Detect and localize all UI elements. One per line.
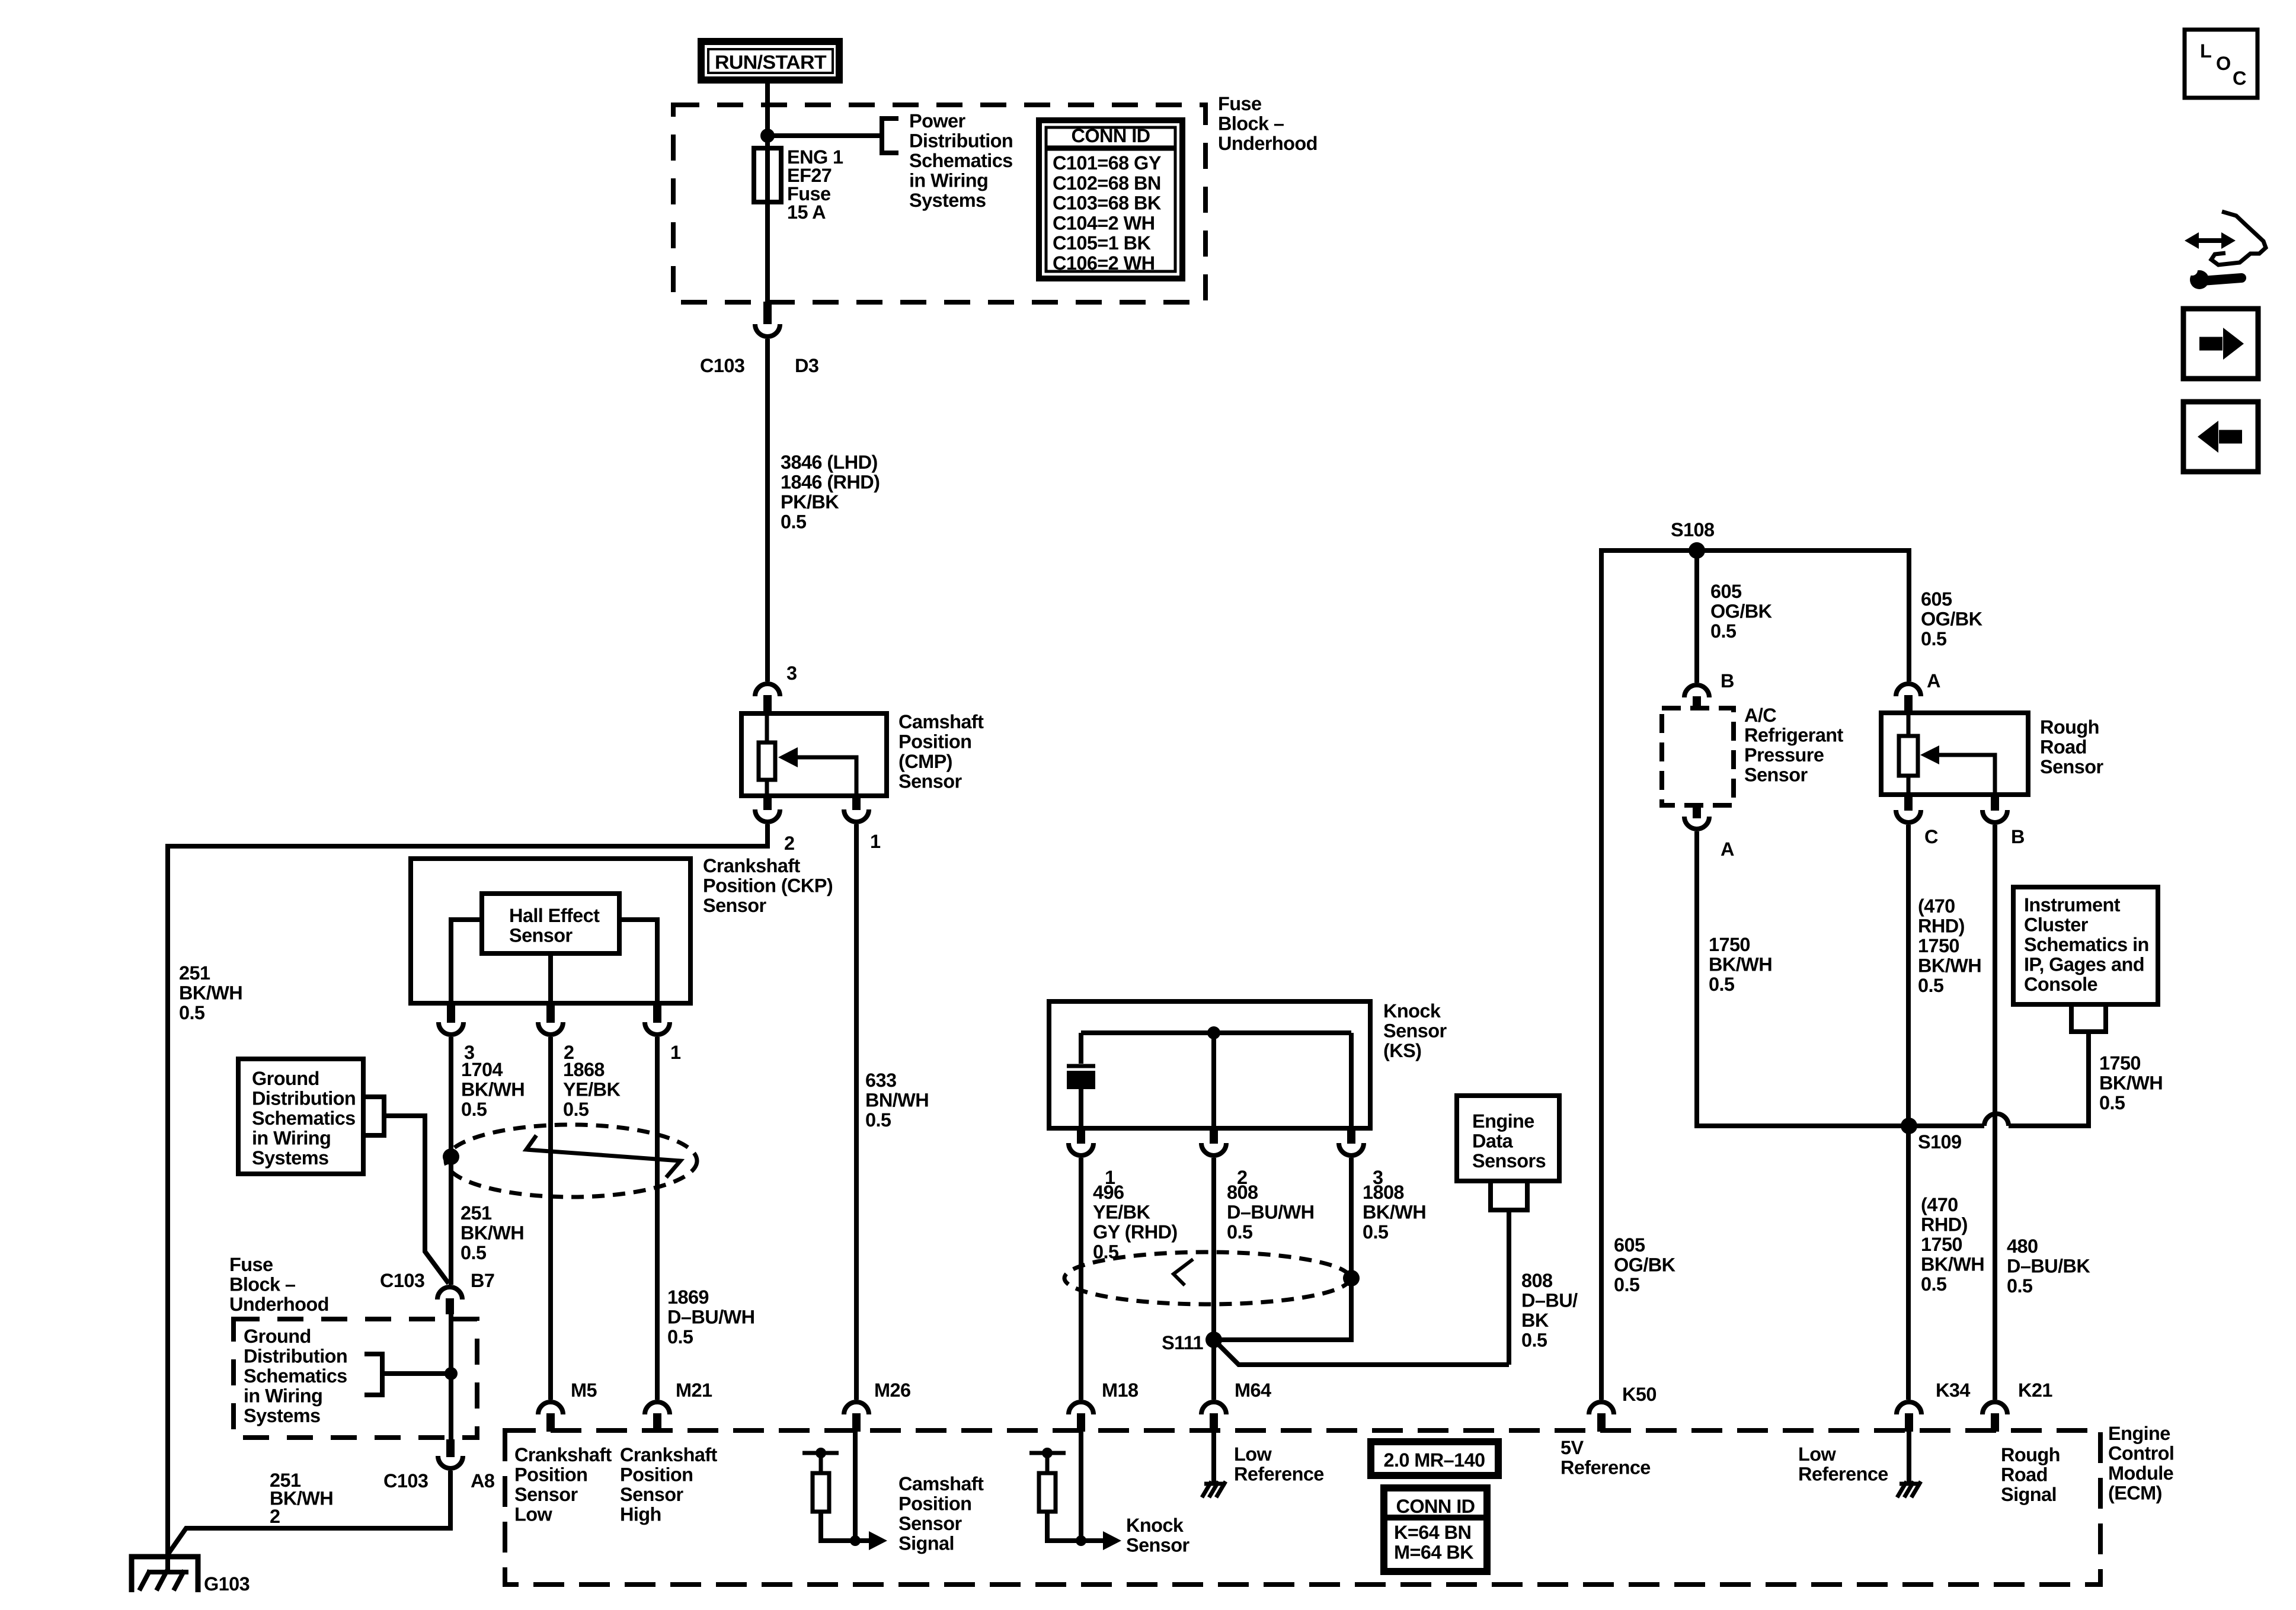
- svg-text:D3: D3: [795, 355, 818, 376]
- svg-text:G103: G103: [204, 1573, 250, 1595]
- pin 2 of CKP: [538, 1003, 574, 1063]
- engine control module ECM dashed box: [505, 1430, 2100, 1585]
- svg-text:B: B: [2011, 826, 2025, 847]
- splice S109: [1901, 1118, 1917, 1134]
- A/C refrigerant pressure sensor (dashed box): [1662, 705, 1844, 805]
- svg-text:CONN ID: CONN ID: [1396, 1496, 1475, 1517]
- svg-text:2: 2: [784, 833, 794, 854]
- wire KS pin2 to S111 to M64: [1211, 1158, 1216, 1400]
- knock sensor KS box: [1049, 1000, 1447, 1128]
- svg-text:C101=68 GYC102=68 BNC103=68 BK: C101=68 GYC102=68 BNC103=68 BKC104=2 WHC…: [1053, 152, 1162, 274]
- wire S111 to engine data sensors: [1214, 1210, 1509, 1365]
- wire K34 to low reference ground: [1907, 1432, 1911, 1483]
- pin 1 of CMP sensor: [844, 796, 881, 852]
- splice S111: [1205, 1331, 1222, 1348]
- connector M21: [645, 1379, 712, 1432]
- junction at fuse feed: [760, 129, 775, 143]
- engine data sensors box: [1457, 1096, 1559, 1181]
- svg-text:K34: K34: [1936, 1379, 1970, 1401]
- pin 1 of KS: [1069, 1128, 1115, 1188]
- fuse block underhood dashed box: [673, 105, 1205, 302]
- crankshaft position sensor CKP: [411, 855, 833, 1003]
- twisted pair mark KS: [1173, 1259, 1193, 1285]
- svg-text:M64: M64: [1235, 1379, 1271, 1401]
- ground distribution reference box (solid): [238, 1059, 363, 1174]
- pin B of A/C refrigerant pressure sensor: [1684, 670, 1734, 709]
- fuse ENG 1 EF27 15 A: [754, 148, 781, 202]
- svg-text:M21: M21: [676, 1379, 712, 1401]
- wire 251 BK/WH 2 from A8 to G103: [168, 1471, 450, 1554]
- pin 1 of CKP: [645, 1003, 681, 1063]
- svg-text:K21: K21: [2018, 1379, 2052, 1401]
- svg-text:M5: M5: [571, 1379, 597, 1401]
- arrow knock sensor signal: [1103, 1531, 1121, 1550]
- arrow inside rough road sensor: [1934, 755, 1995, 795]
- resistor element inside rough road sensor: [1907, 713, 1911, 795]
- twisted pair arrow: [526, 1135, 680, 1177]
- wire RUN/START to fuse to connector C103-D3: [765, 80, 770, 302]
- wire ground distribution to B7: [384, 1116, 449, 1283]
- label box 2.0 MR-140: [1371, 1442, 1498, 1475]
- node RUN/START (power feed box): [701, 41, 839, 80]
- junction camshaft signal: [850, 1535, 861, 1546]
- connector M18: [1069, 1379, 1139, 1432]
- hall effect sensor (inside CKP): [482, 894, 619, 953]
- connector C103 pin A8: [383, 1439, 495, 1491]
- icon diagnostic arrow and wrench: [2185, 212, 2266, 289]
- svg-text:C: C: [2233, 68, 2246, 89]
- svg-text:3: 3: [786, 662, 797, 684]
- svg-text:1: 1: [870, 831, 881, 852]
- junction inside fuse block: [445, 1367, 458, 1380]
- capacitor element inside KS: [1067, 1033, 1095, 1128]
- bracket engine data sensors: [1491, 1181, 1527, 1210]
- svg-text:M26: M26: [874, 1379, 910, 1401]
- arrow camshaft position sensor signal: [869, 1531, 887, 1550]
- wire bracket to B7-A8 wire: [382, 1371, 451, 1376]
- wire hall to CKP pin 1: [619, 920, 657, 1003]
- splice S108: [1689, 542, 1705, 559]
- wire KS pin1 to M18: [1079, 1158, 1083, 1400]
- ground G103: [132, 1557, 250, 1595]
- svg-text:C103: C103: [380, 1270, 424, 1291]
- connector K50: [1589, 1384, 1657, 1432]
- instrument cluster reference box: [2013, 887, 2158, 1004]
- wire hall to CKP pin 3: [451, 920, 482, 1003]
- wire CKP pin2 to M5: [548, 1037, 553, 1400]
- svg-text:M18: M18: [1102, 1379, 1139, 1401]
- wire 3846(LHD)/1846(RHD) PK/BK 0.5: [765, 339, 770, 681]
- pin C of rough road sensor: [1896, 795, 1938, 847]
- svg-text:B7: B7: [471, 1270, 494, 1291]
- pin B of rough road sensor: [1982, 795, 2025, 847]
- wire CKP pin3 to C103 B7 (251 BK/WH): [449, 1037, 453, 1285]
- pin 2 of CMP sensor: [755, 796, 794, 854]
- svg-text:S109: S109: [1918, 1131, 1962, 1153]
- connector M26: [844, 1379, 910, 1432]
- icon forward arrow box: [2183, 309, 2258, 379]
- svg-text:A: A: [1721, 838, 1734, 860]
- connector C103 pin B7: [380, 1270, 494, 1314]
- connector K21: [1982, 1379, 2052, 1432]
- pull-up resistor camshaft signal (inside ECM): [802, 1448, 869, 1541]
- svg-text:KnockSensor: KnockSensor: [1126, 1515, 1190, 1556]
- resistor element inside CMP: [765, 713, 769, 796]
- wire 480 D-BU/BK from pin B to K21: [1993, 825, 1997, 1400]
- junction knock signal: [1076, 1535, 1086, 1546]
- connector K34: [1897, 1379, 1970, 1432]
- bracket ground distribution reference: [363, 1097, 384, 1135]
- wire M64 to low reference ground: [1211, 1432, 1216, 1483]
- bracket instrument cluster: [2071, 1004, 2106, 1032]
- camshaft position sensor CMP: [741, 711, 984, 796]
- svg-text:C103: C103: [383, 1470, 428, 1491]
- svg-text:B: B: [1721, 670, 1734, 692]
- ground low reference (K34): [1897, 1481, 1921, 1497]
- wire branch to Power Distribution reference: [768, 133, 882, 138]
- wire KS pin3 to S111: [1214, 1158, 1351, 1340]
- arrow inside CMP: [793, 757, 856, 796]
- pull-up resistor knock signal (inside ECM): [1029, 1448, 1103, 1541]
- pin 3 of CMP sensor: [755, 662, 797, 715]
- connector M64: [1201, 1379, 1271, 1432]
- svg-text:S111: S111: [1162, 1332, 1203, 1353]
- svg-text:1: 1: [670, 1042, 681, 1063]
- pin A of A/C refrigerant pressure sensor: [1684, 805, 1734, 860]
- pin 3 of CKP: [439, 1003, 474, 1063]
- pin A of rough road sensor: [1896, 670, 1940, 714]
- pin 2 of KS: [1201, 1128, 1247, 1188]
- svg-text:A: A: [1927, 670, 1940, 692]
- wire inside KS: [1081, 1033, 1351, 1128]
- connector C103 pin D3: [700, 302, 818, 376]
- svg-text:S108: S108: [1671, 519, 1715, 540]
- icon LOC box: [2185, 30, 2257, 98]
- shield ellipse (twisted pair) KS: [1064, 1252, 1350, 1304]
- pin 3 of KS: [1339, 1128, 1383, 1188]
- wire M18 to knock signal arrow: [1079, 1432, 1083, 1541]
- svg-text:L: L: [2200, 40, 2211, 62]
- svg-text:C: C: [1924, 826, 1938, 847]
- svg-text:K=64 BNM=64 BK: K=64 BNM=64 BK: [1394, 1522, 1474, 1563]
- table CONN ID (fuse block): [1039, 120, 1182, 279]
- svg-text:2.0 MR–140: 2.0 MR–140: [1383, 1449, 1485, 1471]
- wire 633 BN/WH 0.5 from CMP pin 1 to M26: [854, 824, 859, 1400]
- wire S108 to A/C sensor pin B: [1694, 550, 1699, 683]
- wire 1750 BK/WH (470 RHD) from pin C to K34: [1906, 825, 1911, 1400]
- svg-text:C103: C103: [700, 355, 744, 376]
- svg-text:CONN ID: CONN ID: [1071, 125, 1150, 146]
- junction on wire 3: [443, 1148, 459, 1165]
- hop over wire B: [1984, 1113, 2009, 1126]
- fuse block underhood dashed box (left): [234, 1319, 477, 1438]
- wire CKP pin1 to M21: [655, 1037, 660, 1400]
- svg-text:K50: K50: [1622, 1384, 1657, 1405]
- wire M26 to camshaft signal arrow: [853, 1432, 858, 1541]
- svg-text:A8: A8: [471, 1470, 495, 1491]
- svg-text:RUN/START: RUN/START: [715, 52, 827, 73]
- wire 251 BK/WH 0.5 from CMP pin 2 to ground G103: [168, 824, 768, 1572]
- table CONN ID (ECM): [1384, 1488, 1487, 1571]
- junction inside KS: [1207, 1026, 1220, 1039]
- wire hall to CKP pin 2: [548, 953, 553, 1003]
- bracket ground distribution reference 2: [364, 1354, 382, 1395]
- wire 1750 BK/WH 0.5 from A/C pin A to S109 rail and instrument cluster: [1697, 831, 2089, 1126]
- shield ellipse (twisted pair) CKP: [446, 1125, 697, 1197]
- connector M5: [538, 1379, 597, 1432]
- junction on KS wire 3: [1343, 1270, 1360, 1286]
- ground low reference (M64): [1202, 1481, 1226, 1497]
- bracket Power Distribution reference: [882, 119, 898, 153]
- icon back arrow box: [2183, 402, 2258, 472]
- svg-text:O: O: [2216, 53, 2231, 74]
- rough road sensor box: [1881, 713, 2104, 795]
- wire S108 rail 605 OG/BK: [1601, 550, 1909, 1400]
- wire B7 to A8 through fuse block: [449, 1313, 453, 1439]
